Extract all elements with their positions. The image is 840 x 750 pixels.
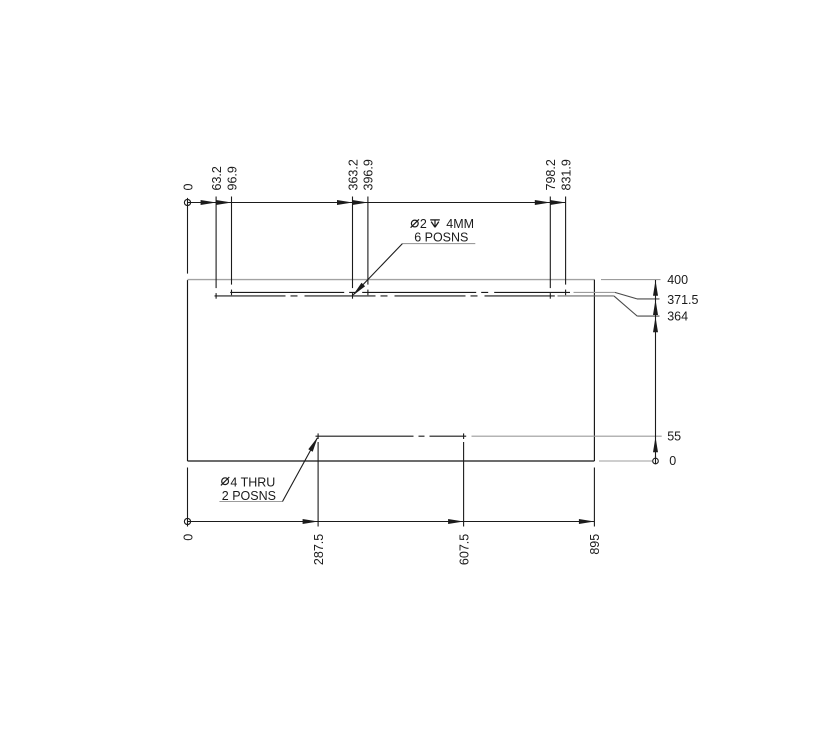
extension line x=287.5 (bottom) bbox=[317, 442, 319, 527]
leader 400 bbox=[601, 279, 661, 281]
bottom hole centerline (55) bbox=[316, 435, 467, 437]
extension line x=895 (bottom) bbox=[593, 468, 595, 527]
extension line x=831.9 bbox=[565, 197, 567, 285]
depth symbol bbox=[430, 220, 440, 227]
svg-text:371.5: 371.5 bbox=[667, 293, 698, 307]
right dim arrows bbox=[653, 280, 658, 452]
part outline right edge bbox=[593, 280, 595, 461]
leader 364 bbox=[558, 295, 614, 297]
part outline top edge bbox=[188, 279, 595, 281]
bottom origin symbol bbox=[184, 518, 190, 524]
svg-text:895: 895 bbox=[588, 534, 602, 555]
svg-text:4 THRU: 4 THRU bbox=[230, 475, 275, 489]
hole tick 287.5 bbox=[317, 433, 319, 439]
hole tick 607.5 bbox=[463, 433, 465, 439]
svg-text:396.9: 396.9 bbox=[362, 159, 376, 190]
extension line x=396.9 bbox=[367, 197, 369, 285]
leader 55 bbox=[472, 435, 662, 437]
extension line x=0 (bottom) bbox=[187, 468, 189, 527]
svg-text:6 POSNS: 6 POSNS bbox=[414, 230, 468, 244]
hole tick 798.2 bbox=[549, 293, 551, 299]
svg-text:4MM: 4MM bbox=[446, 217, 474, 231]
callout leader line bbox=[353, 244, 402, 295]
part outline bottom edge bbox=[188, 460, 595, 462]
top dim arrows bbox=[201, 200, 566, 205]
svg-text:798.2: 798.2 bbox=[544, 159, 558, 190]
svg-text:96.9: 96.9 bbox=[225, 166, 239, 190]
part outline left edge bbox=[187, 280, 189, 461]
svg-text:364: 364 bbox=[667, 309, 688, 323]
svg-text:831.9: 831.9 bbox=[559, 159, 573, 190]
svg-text:287.5: 287.5 bbox=[312, 534, 326, 565]
svg-text:63.2: 63.2 bbox=[210, 166, 224, 190]
callout underline bbox=[219, 501, 282, 503]
leader 0 (right) bbox=[599, 460, 652, 462]
hole tick 63.2 bbox=[215, 293, 217, 299]
top origin symbol bbox=[184, 198, 190, 209]
top dimension line bbox=[188, 202, 566, 204]
hole tick 831.9 bbox=[565, 290, 567, 296]
callout leader arrowhead bbox=[353, 283, 366, 296]
svg-text:55: 55 bbox=[667, 429, 681, 443]
bottom dim arrows bbox=[303, 519, 595, 524]
callout diameter symbol (2mm holes) bbox=[411, 219, 419, 227]
extension line x=96.9 bbox=[231, 197, 233, 285]
callout leader line bbox=[283, 438, 318, 502]
leader 371.5 bbox=[574, 291, 615, 293]
extension line x=0 (top) bbox=[187, 209, 189, 274]
svg-text:2 POSNS: 2 POSNS bbox=[222, 489, 276, 503]
svg-text:363.2: 363.2 bbox=[346, 159, 360, 190]
callout diameter symbol (4mm holes) bbox=[221, 477, 229, 485]
hole tick 96.9 bbox=[231, 290, 233, 296]
right dimension line bbox=[655, 280, 657, 458]
lower hole centerline (364) bbox=[215, 295, 555, 297]
extension line x=363.2 bbox=[352, 197, 354, 289]
svg-text:2: 2 bbox=[420, 217, 427, 231]
extension line x=798.2 bbox=[549, 197, 551, 289]
svg-text:400: 400 bbox=[667, 273, 688, 287]
svg-text:0: 0 bbox=[181, 534, 195, 541]
upper hole centerline (371.5) bbox=[230, 291, 570, 293]
right origin symbol bbox=[653, 456, 659, 464]
bottom dimension line bbox=[188, 521, 595, 523]
svg-text:607.5: 607.5 bbox=[457, 534, 471, 565]
svg-text:0: 0 bbox=[669, 454, 676, 468]
svg-text:0: 0 bbox=[181, 184, 195, 191]
hole tick 396.9 bbox=[367, 290, 369, 296]
extension line x=63.2 bbox=[215, 197, 217, 289]
hole tick 363.2 bbox=[352, 293, 354, 299]
callout underline bbox=[402, 243, 475, 245]
callout leader arrowhead bbox=[308, 437, 318, 452]
extension line x=607.5 (bottom) bbox=[463, 442, 465, 527]
